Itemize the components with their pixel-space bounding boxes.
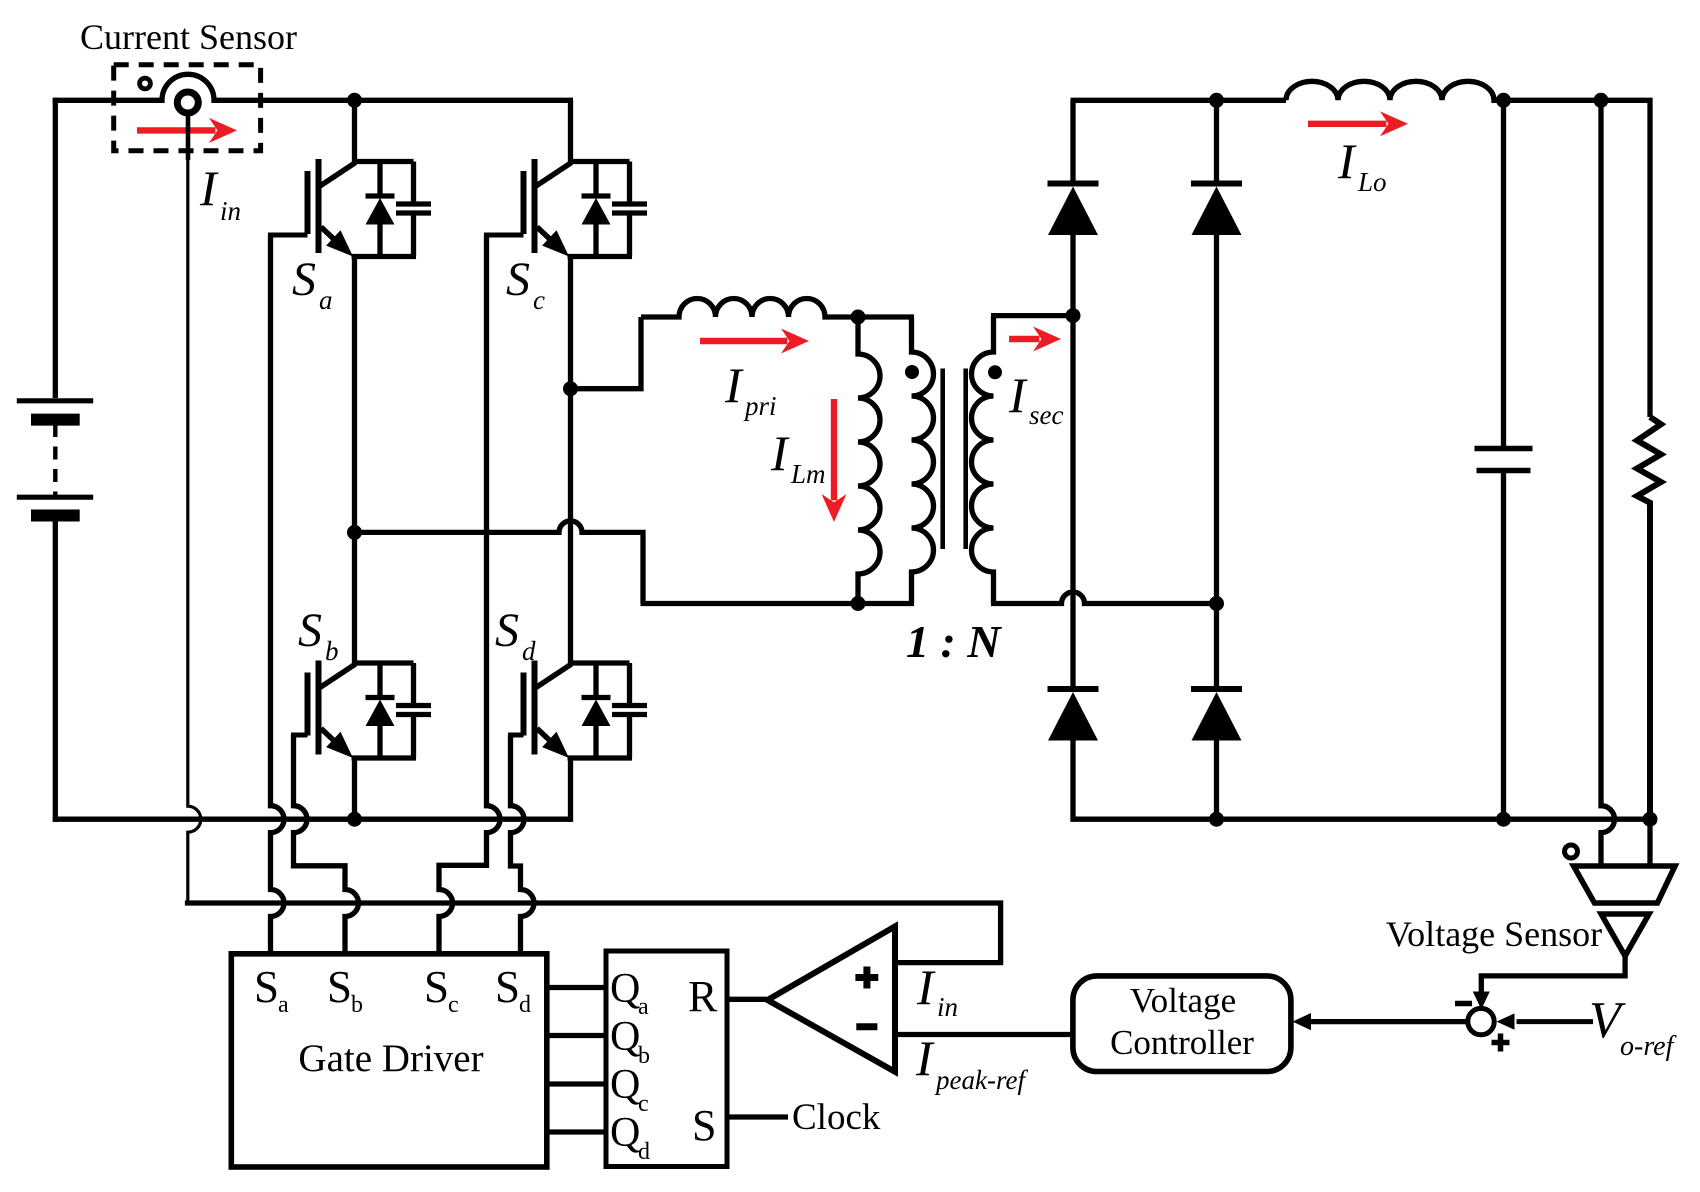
wire Q_a stub (547, 985, 606, 990)
svg-text:S: S (424, 962, 449, 1012)
secondary polarity dot (988, 365, 1002, 379)
svg-text:R: R (688, 972, 718, 1021)
svg-text:c: c (533, 285, 545, 315)
arrow into summing junction (minus input) (1473, 992, 1490, 1010)
svg-text:d: d (522, 636, 536, 666)
svg-text:Current Sensor: Current Sensor (80, 17, 297, 57)
voltage sensor trapezoid (1574, 866, 1675, 903)
plus sign at summing junction (1492, 1040, 1510, 1046)
svg-text:d: d (638, 1139, 650, 1165)
wire sensor output to summing junction (1481, 953, 1625, 992)
svg-text:Lo: Lo (1357, 167, 1387, 197)
junction dot top rail / sense line (1594, 93, 1609, 108)
battery negative plate (bottom short) (31, 510, 80, 522)
wire S_d emitter to rail corner (568, 758, 573, 822)
svg-text:S: S (292, 253, 316, 306)
svg-text:I: I (199, 160, 219, 216)
junction dot top rail / right leg (1209, 93, 1224, 108)
wire right leg mid (1214, 232, 1219, 690)
output capacitor C_o (1501, 100, 1506, 446)
output bottom rail (1217, 817, 1651, 822)
leakage inductor L_lk (primary series coil) (641, 299, 858, 318)
current sensor small terminal circle (140, 78, 151, 89)
svg-text:Voltage: Voltage (1130, 981, 1236, 1020)
load resistor R (zigzag) (1637, 417, 1661, 819)
I_in feedback line to comparator (185, 903, 1001, 963)
wire right leg lower (1214, 737, 1219, 819)
junction dot resistor bottom / sensor tap (1643, 812, 1658, 827)
wire leg B midpoint to S_d collector (568, 389, 573, 663)
primary polarity dot (905, 365, 919, 379)
wire Q_b stub (547, 1033, 606, 1038)
svg-text:Q: Q (610, 966, 640, 1012)
IGBT S_d with antiparallel diode and snubber capacitor (508, 661, 647, 759)
svg-text:sec: sec (1029, 400, 1063, 430)
wire right leg upper (1214, 100, 1219, 184)
svg-text:Q: Q (610, 1014, 640, 1060)
rectifier diode D3 (left bottom) (1048, 689, 1099, 741)
svg-text:S: S (298, 604, 322, 657)
flip-flop box (606, 951, 727, 1167)
current sensor toroid ring (177, 92, 198, 113)
svg-text:in: in (220, 196, 241, 226)
wire S_b emitter to rail (352, 758, 357, 819)
battery negative plate (top short) (31, 414, 80, 426)
summing junction circle (1468, 1008, 1494, 1034)
svg-text:S: S (254, 962, 279, 1012)
battery positive plate (bottom long) (17, 495, 93, 500)
wire summing junction to voltage controller with arrow (1305, 1019, 1468, 1024)
junction dot right leg / output rail (1209, 812, 1224, 827)
magnetizing inductance L_m winding (858, 317, 880, 604)
junction dot S_b emitter on rail (347, 812, 362, 827)
svg-text:I: I (724, 357, 744, 413)
wire S_a emitter to leg A midpoint (352, 257, 357, 533)
rectifier diode D2 (right top) (1191, 184, 1242, 236)
gate wire S_d to driver (step right, hops) (511, 735, 535, 954)
rectifier diode D4 (right bottom) (1191, 689, 1242, 741)
junction dot leg A midpoint (347, 525, 362, 540)
wire Q_d stub (547, 1129, 606, 1134)
wire S output to clock (727, 1114, 788, 1119)
svg-text:pri: pri (743, 391, 777, 421)
wire leg B midpoint to leakage inductor (up jog) (573, 317, 641, 389)
IGBT S_a with antiparallel diode and snubber capacitor (268, 159, 431, 257)
voltage sensor terminal circle (1565, 845, 1578, 858)
svg-text:I: I (1008, 367, 1028, 423)
voltage controller box (1073, 976, 1291, 1072)
wire Q_c stub (547, 1081, 606, 1086)
gate wire S_a to driver (hops rail and I_in line) (271, 235, 285, 954)
wire battery top vertical (53, 98, 58, 398)
svg-text:S: S (495, 962, 520, 1012)
svg-text:I: I (1337, 133, 1357, 189)
secondary bottom wire with hop over left rectifier leg (991, 592, 1217, 604)
svg-text:c: c (448, 992, 459, 1018)
svg-text:o-ref: o-ref (1620, 1031, 1677, 1062)
svg-text:d: d (519, 992, 531, 1018)
secondary top wire (991, 313, 1076, 318)
svg-text:S: S (506, 253, 530, 306)
red arrow I_Lo (1308, 121, 1386, 127)
wire node to primary winding top (858, 314, 914, 319)
top rail with current-transformer bump (53, 74, 573, 100)
svg-text:I: I (916, 959, 936, 1015)
junction dot secondary top / left leg (1066, 308, 1081, 323)
red arrow Iin direction (137, 127, 215, 133)
wire battery bottom vertical (53, 513, 58, 822)
svg-text:I: I (770, 425, 790, 481)
V_o-ref input arrow (1517, 1019, 1594, 1024)
IGBT S_c with antiparallel diode and snubber capacitor (484, 159, 647, 257)
svg-text:in: in (937, 992, 958, 1022)
IGBT S_b with antiparallel diode and snubber capacitor (291, 661, 431, 759)
gate wire S_b to driver (step right, hops) (294, 735, 359, 954)
transformer primary winding (912, 317, 934, 604)
svg-text:S: S (495, 604, 519, 657)
svg-text:1 : N: 1 : N (906, 616, 1002, 667)
wire comparator output to R input (727, 997, 767, 1002)
transformer secondary winding (972, 316, 994, 604)
svg-text:a: a (319, 285, 333, 315)
svg-text:Clock: Clock (792, 1097, 881, 1138)
comparator minus sign (856, 1023, 877, 1030)
battery dashed middle (53, 424, 57, 497)
svg-text:S: S (692, 1101, 716, 1150)
secondary top rail (1071, 98, 1287, 103)
rectifier diode D1 (left top) (1048, 184, 1099, 236)
current sensor dashed box (114, 65, 261, 151)
svg-text:Lm: Lm (790, 459, 826, 489)
svg-text:b: b (325, 636, 339, 666)
transformer bottom wire (primary side) (641, 601, 915, 606)
svg-text:S: S (327, 962, 352, 1012)
svg-text:peak-ref: peak-ref (934, 1065, 1028, 1095)
battery positive plate (top long) (17, 398, 93, 403)
wire S_c emitter to leg B midpoint (568, 257, 573, 389)
voltage sense line from top rail (hops output rail) (1601, 100, 1615, 866)
svg-text:Q: Q (610, 1110, 640, 1156)
junction dot top rail / output cap (1496, 93, 1511, 108)
wire S_c collector drop (top rail corner to S_c) (568, 100, 573, 163)
primary bottom rail (53, 817, 573, 822)
junction dot cap bottom / output rail (1496, 812, 1511, 827)
current sensor sense wire vertical with hop at rail (188, 158, 201, 901)
red arrow I_pri (700, 338, 787, 344)
svg-text:Controller: Controller (1110, 1023, 1254, 1062)
svg-text:a: a (278, 992, 289, 1018)
wire leg A midpoint to transformer bottom (down jog), hop over leg B (357, 521, 643, 604)
red arrow I_Lm (down) (831, 399, 837, 500)
wire leg A midpoint to S_b collector (352, 532, 357, 663)
junction dot top rail / S_a collector (347, 93, 362, 108)
svg-text:b: b (351, 992, 363, 1018)
wire left leg lower to rail corner (1073, 737, 1217, 819)
current sensor sense wire stub below ring (186, 111, 191, 160)
svg-text:I: I (915, 1030, 935, 1086)
wire I_peak-ref (controller to comparator minus) (897, 1032, 1073, 1037)
voltage sensor buffer triangle (1601, 914, 1649, 956)
svg-text:Q: Q (610, 1062, 640, 1108)
output inductor L_o (1286, 81, 1650, 417)
voltage sensor tap line (resistor node down) (1647, 819, 1652, 866)
transformer core bars (940, 369, 945, 550)
gate wire S_c to driver (step left, hops) (439, 235, 500, 954)
minus sign at summing junction (1455, 1001, 1472, 1007)
gate driver box (231, 954, 547, 1167)
comparator plus sign (855, 974, 878, 981)
svg-text:Voltage Sensor: Voltage Sensor (1386, 914, 1602, 954)
svg-text:Gate Driver: Gate Driver (298, 1037, 483, 1080)
wire left leg upper (1070, 100, 1075, 184)
wire S_a collector drop (352, 100, 357, 163)
junction dot secondary bottom / right leg (1209, 596, 1224, 611)
junction dot magnetizing bottom (851, 596, 866, 611)
junction dot leg B midpoint (563, 381, 578, 396)
wire left leg mid (1070, 232, 1075, 690)
red arrow I_sec (1009, 336, 1039, 342)
comparator triangle (768, 926, 896, 1071)
junction dot leakage / magnetizing node (851, 310, 866, 325)
